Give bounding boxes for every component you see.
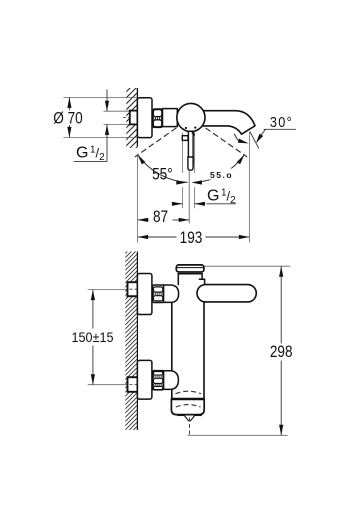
svg-text:55.o: 55.o	[210, 170, 233, 180]
cartridge housing circle (top view)	[177, 103, 205, 131]
neck under cap (front view)	[178, 274, 202, 286]
svg-text:55°: 55°	[152, 165, 173, 184]
union nut bottom (front view)	[153, 371, 164, 390]
extension lines, outlet thread dia (top view)	[182, 133, 184, 173]
wall fitting top (front view)	[128, 282, 138, 296]
angle arc 30deg	[234, 134, 239, 141]
aerator ring (front view)	[171, 399, 204, 414]
wall (top view, hatched)	[124, 72, 140, 160]
outlet centerline dashed	[189, 418, 191, 436]
inlet tube between nut and body (top view)	[163, 109, 178, 127]
angle arc 55deg left	[138, 155, 188, 183]
collar step (front view)	[199, 279, 205, 285]
leader for 30deg label	[264, 128, 296, 130]
extension lines, inlet centers 150mm	[88, 289, 131, 291]
svg-text:298: 298	[270, 343, 293, 362]
body cylinder (front view)	[172, 298, 204, 399]
wall (front view, hatched)	[123, 235, 140, 445]
outlet tip (front view)	[177, 415, 184, 417]
hidden detail dashed arcs	[176, 391, 202, 394]
union nut top (front view)	[153, 285, 164, 303]
escutcheon bottom (front view)	[137, 360, 152, 399]
spout (top view)	[198, 111, 255, 135]
svg-text:150±15: 150±15	[72, 329, 114, 345]
dimension 298	[280, 266, 282, 343]
union elbow bottom (front view)	[164, 371, 179, 390]
union nut (top view)	[153, 109, 163, 127]
escutcheon (top view)	[137, 98, 152, 138]
extension line, spout tip vertical	[248, 132, 250, 243]
screw dots on circle	[185, 127, 187, 129]
svg-text:30°: 30°	[270, 113, 293, 130]
dimension 193	[138, 236, 177, 238]
union elbow top (front view)	[164, 285, 179, 302]
svg-text:193: 193	[180, 229, 203, 248]
wall fitting / pipe elbow (top view)	[130, 111, 138, 125]
escutcheon top (front view)	[137, 274, 152, 315]
dashed line 55deg right	[206, 128, 248, 157]
extension lines, escutcheon dia 70	[63, 96, 137, 98]
extension lines, inlet pipe dia (top view)	[104, 110, 132, 112]
dashed line 55deg left	[135, 128, 176, 157]
dimension dia70	[68, 97, 70, 110]
angle arc 55deg right	[194, 155, 244, 183]
lever (front view)	[197, 285, 256, 302]
cartridge cap (front view)	[176, 265, 204, 272]
extension line, wall face (for 87/193)	[137, 156, 139, 243]
wall fitting bottom (front view)	[128, 377, 138, 392]
svg-text:Ø 70: Ø 70	[53, 109, 82, 128]
svg-text:87: 87	[153, 207, 168, 226]
dimension G1/2 inlet (left)	[106, 89, 108, 111]
extension lines for 298	[205, 265, 291, 267]
outlet centerline (top view)	[188, 171, 190, 224]
dimension G1/2 outlet thread	[172, 203, 182, 205]
lever handle (top view, pointing at viewer)	[182, 131, 194, 170]
extension line, spout face 30deg	[250, 132, 259, 149]
dimension 87	[138, 219, 149, 221]
dimension 150+-15	[92, 290, 94, 329]
